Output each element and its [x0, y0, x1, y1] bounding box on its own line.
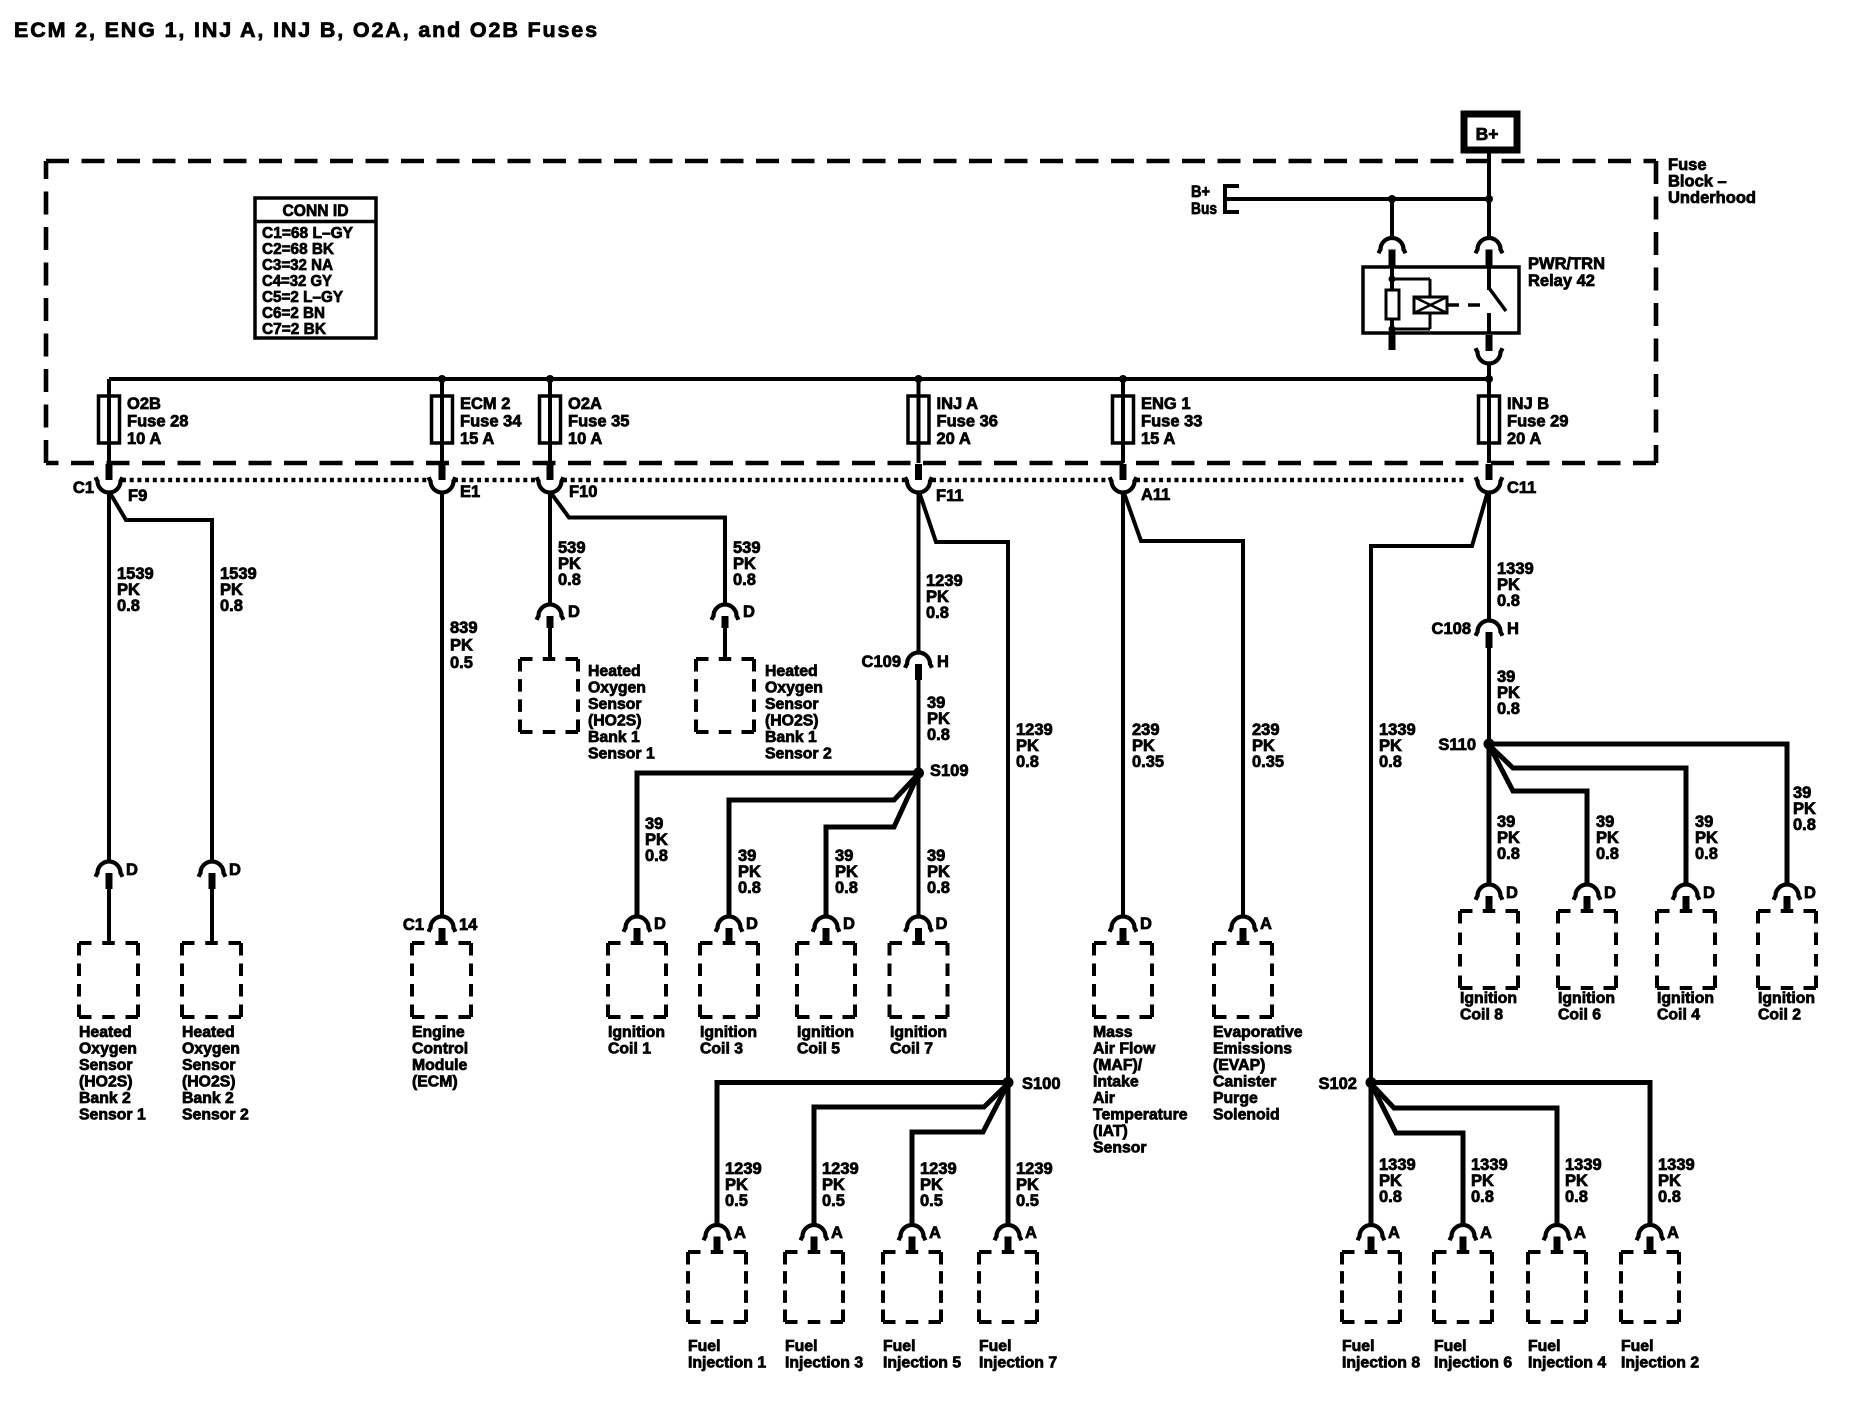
svg-text:Module: Module [412, 1057, 467, 1074]
svg-text:Heated: Heated [182, 1024, 235, 1041]
svg-text:Bank 1: Bank 1 [765, 729, 817, 746]
svg-text:Fuel: Fuel [1621, 1338, 1653, 1355]
svg-text:Air: Air [1093, 1090, 1115, 1107]
svg-text:Fuel: Fuel [688, 1338, 720, 1355]
svg-text:0.8: 0.8 [1379, 1188, 1402, 1206]
svg-text:A: A [1480, 1224, 1492, 1242]
svg-text:A: A [1574, 1224, 1586, 1242]
svg-text:O2B: O2B [127, 395, 161, 413]
svg-text:0.8: 0.8 [1497, 700, 1520, 718]
svg-text:C7=2 BK: C7=2 BK [262, 321, 326, 338]
svg-text:Temperature: Temperature [1093, 1107, 1188, 1124]
svg-text:10 A: 10 A [568, 430, 602, 448]
svg-text:A: A [734, 1224, 746, 1242]
svg-text:Sensor: Sensor [1093, 1140, 1147, 1157]
svg-text:0.8: 0.8 [1793, 816, 1816, 834]
svg-text:Sensor: Sensor [79, 1057, 133, 1074]
svg-text:ECM 2, ENG 1, INJ A, INJ B, O2: ECM 2, ENG 1, INJ A, INJ B, O2A, and O2B… [14, 18, 599, 42]
svg-text:0.35: 0.35 [1132, 753, 1164, 771]
svg-text:D: D [843, 915, 855, 933]
svg-text:C3=32 NA: C3=32 NA [262, 257, 333, 274]
svg-text:Oxygen: Oxygen [182, 1041, 240, 1058]
svg-text:S109: S109 [930, 762, 969, 780]
svg-text:0.8: 0.8 [1497, 845, 1520, 863]
svg-text:0.8: 0.8 [1497, 592, 1520, 610]
svg-text:Canister: Canister [1213, 1074, 1276, 1091]
svg-text:0.8: 0.8 [927, 879, 950, 897]
svg-text:Heated: Heated [79, 1024, 132, 1041]
svg-text:D: D [1604, 884, 1616, 902]
svg-text:0.5: 0.5 [822, 1192, 845, 1210]
svg-text:Sensor 1: Sensor 1 [79, 1107, 146, 1124]
svg-text:10 A: 10 A [127, 430, 161, 448]
svg-text:CONN ID: CONN ID [283, 202, 349, 220]
svg-text:A: A [929, 1224, 941, 1242]
svg-text:Fuel: Fuel [1342, 1338, 1374, 1355]
svg-text:0.8: 0.8 [117, 597, 140, 615]
svg-text:F9: F9 [128, 487, 147, 505]
svg-text:B+: B+ [1476, 124, 1499, 144]
svg-text:Heated: Heated [765, 663, 818, 680]
svg-text:Bank 1: Bank 1 [588, 729, 640, 746]
svg-text:H: H [937, 653, 949, 671]
svg-text:0.8: 0.8 [1695, 845, 1718, 863]
svg-text:Coil 3: Coil 3 [700, 1041, 743, 1058]
svg-text:A11: A11 [1141, 486, 1170, 504]
svg-text:C6=2 BN: C6=2 BN [262, 305, 325, 322]
svg-text:0.5: 0.5 [1016, 1192, 1039, 1210]
svg-text:0.5: 0.5 [450, 654, 473, 672]
svg-text:0.8: 0.8 [645, 847, 668, 865]
svg-text:(ECM): (ECM) [412, 1074, 458, 1091]
svg-text:Fuse 36: Fuse 36 [937, 413, 998, 431]
svg-text:Bank 2: Bank 2 [79, 1090, 131, 1107]
svg-text:0.8: 0.8 [1658, 1188, 1681, 1206]
svg-text:Emissions: Emissions [1213, 1041, 1292, 1058]
svg-text:Injection 7: Injection 7 [979, 1355, 1057, 1372]
svg-text:0.8: 0.8 [1596, 845, 1619, 863]
svg-text:(HO2S): (HO2S) [79, 1074, 133, 1091]
svg-text:Relay 42: Relay 42 [1528, 272, 1595, 290]
svg-text:Oxygen: Oxygen [588, 680, 646, 697]
svg-text:20 A: 20 A [937, 430, 971, 448]
svg-text:D: D [936, 915, 948, 933]
svg-text:Ignition: Ignition [608, 1024, 665, 1041]
svg-text:14: 14 [459, 916, 478, 934]
svg-text:C2=68 BK: C2=68 BK [262, 241, 334, 258]
svg-text:A: A [1260, 915, 1272, 933]
svg-text:D: D [126, 861, 138, 879]
svg-text:S102: S102 [1318, 1075, 1357, 1093]
svg-text:0.8: 0.8 [1471, 1188, 1494, 1206]
svg-text:D: D [1703, 884, 1715, 902]
svg-text:(EVAP): (EVAP) [1213, 1057, 1265, 1074]
svg-text:Fuel: Fuel [1434, 1338, 1466, 1355]
svg-text:(IAT): (IAT) [1093, 1123, 1128, 1140]
svg-text:Bank 2: Bank 2 [182, 1090, 234, 1107]
svg-text:0.8: 0.8 [1016, 753, 1039, 771]
svg-text:Fuel: Fuel [1528, 1338, 1560, 1355]
svg-text:Injection 2: Injection 2 [1621, 1355, 1699, 1372]
svg-text:D: D [743, 603, 755, 621]
svg-text:C11: C11 [1507, 479, 1536, 497]
svg-text:S110: S110 [1438, 736, 1476, 754]
svg-text:A: A [831, 1224, 843, 1242]
svg-text:0.8: 0.8 [558, 571, 581, 589]
svg-text:O2A: O2A [568, 395, 602, 413]
svg-text:A: A [1025, 1224, 1037, 1242]
svg-text:Coil 5: Coil 5 [797, 1041, 840, 1058]
svg-text:F11: F11 [936, 487, 964, 505]
svg-text:0.5: 0.5 [920, 1192, 943, 1210]
svg-text:0.8: 0.8 [1565, 1188, 1588, 1206]
svg-text:Ignition: Ignition [890, 1024, 947, 1041]
svg-text:(HO2S): (HO2S) [765, 713, 819, 730]
svg-text:Evaporative: Evaporative [1213, 1024, 1303, 1041]
svg-text:D: D [746, 915, 758, 933]
svg-text:Coil 1: Coil 1 [608, 1041, 651, 1058]
svg-text:A: A [1667, 1224, 1679, 1242]
svg-text:(HO2S): (HO2S) [588, 713, 642, 730]
svg-text:Oxygen: Oxygen [79, 1041, 137, 1058]
svg-text:INJ B: INJ B [1507, 395, 1549, 413]
svg-text:(MAF)/: (MAF)/ [1093, 1057, 1143, 1074]
svg-text:Mass: Mass [1093, 1024, 1133, 1041]
svg-text:Injection 4: Injection 4 [1528, 1355, 1606, 1372]
svg-text:Fuse 29: Fuse 29 [1507, 413, 1568, 431]
svg-text:Fuse 35: Fuse 35 [568, 413, 629, 431]
svg-text:C5=2 L–GY: C5=2 L–GY [262, 289, 343, 306]
svg-text:Bus: Bus [1191, 200, 1217, 218]
svg-text:ENG 1: ENG 1 [1141, 395, 1191, 413]
svg-text:C108: C108 [1432, 620, 1471, 638]
svg-text:Injection 3: Injection 3 [785, 1355, 863, 1372]
svg-text:Fuse 33: Fuse 33 [1141, 413, 1202, 431]
svg-text:Underhood: Underhood [1668, 189, 1756, 207]
svg-text:Injection 5: Injection 5 [883, 1355, 961, 1372]
svg-text:H: H [1507, 620, 1519, 638]
svg-text:Coil 6: Coil 6 [1558, 1007, 1601, 1024]
svg-text:0.8: 0.8 [220, 597, 243, 615]
svg-text:INJ A: INJ A [937, 395, 979, 413]
svg-text:Solenoid: Solenoid [1213, 1107, 1280, 1124]
svg-text:15 A: 15 A [460, 430, 494, 448]
svg-text:S100: S100 [1022, 1075, 1061, 1093]
svg-text:Injection 8: Injection 8 [1342, 1355, 1420, 1372]
svg-text:D: D [229, 861, 241, 879]
svg-text:Coil 7: Coil 7 [890, 1041, 933, 1058]
svg-text:0.8: 0.8 [835, 879, 858, 897]
svg-text:0.5: 0.5 [725, 1192, 748, 1210]
svg-text:Coil 4: Coil 4 [1657, 1007, 1700, 1024]
svg-text:D: D [1140, 915, 1152, 933]
svg-text:C109: C109 [862, 653, 901, 671]
svg-text:C1=68 L–GY: C1=68 L–GY [262, 225, 353, 242]
svg-text:Fuse 28: Fuse 28 [127, 413, 188, 431]
svg-text:Control: Control [412, 1041, 468, 1058]
svg-text:Sensor: Sensor [588, 696, 642, 713]
svg-text:Sensor 2: Sensor 2 [182, 1107, 249, 1124]
svg-text:Ignition: Ignition [1460, 990, 1517, 1007]
svg-text:Heated: Heated [588, 663, 641, 680]
svg-text:E1: E1 [460, 483, 480, 501]
svg-text:0.35: 0.35 [1252, 753, 1284, 771]
svg-text:Oxygen: Oxygen [765, 680, 823, 697]
svg-text:Fuel: Fuel [979, 1338, 1011, 1355]
svg-text:Fuse 34: Fuse 34 [460, 413, 522, 431]
svg-text:Sensor 1: Sensor 1 [588, 746, 655, 763]
svg-text:0.8: 0.8 [927, 726, 950, 744]
svg-text:Sensor: Sensor [765, 696, 819, 713]
svg-text:A: A [1388, 1224, 1400, 1242]
svg-text:20 A: 20 A [1507, 430, 1541, 448]
svg-text:0.8: 0.8 [1379, 753, 1402, 771]
svg-text:Air Flow: Air Flow [1093, 1041, 1156, 1058]
svg-text:0.8: 0.8 [738, 879, 761, 897]
svg-text:Block –: Block – [1668, 173, 1727, 191]
svg-text:Ignition: Ignition [1657, 990, 1714, 1007]
svg-text:D: D [1506, 884, 1518, 902]
svg-text:Fuel: Fuel [883, 1338, 915, 1355]
svg-text:(HO2S): (HO2S) [182, 1074, 236, 1091]
svg-text:Coil 2: Coil 2 [1758, 1007, 1801, 1024]
svg-text:0.8: 0.8 [926, 604, 949, 622]
svg-text:Ignition: Ignition [1558, 990, 1615, 1007]
svg-text:Injection 6: Injection 6 [1434, 1355, 1512, 1372]
svg-text:839: 839 [450, 619, 478, 637]
svg-text:PWR/TRN: PWR/TRN [1528, 255, 1605, 273]
svg-text:B+: B+ [1191, 183, 1210, 201]
svg-text:Injection 1: Injection 1 [688, 1355, 766, 1372]
svg-text:Fuel: Fuel [785, 1338, 817, 1355]
svg-text:Sensor: Sensor [182, 1057, 236, 1074]
svg-text:Fuse: Fuse [1668, 156, 1707, 174]
svg-text:15 A: 15 A [1141, 430, 1175, 448]
svg-text:Ignition: Ignition [797, 1024, 854, 1041]
svg-text:C4=32 GY: C4=32 GY [262, 273, 332, 290]
svg-text:PK: PK [450, 637, 473, 655]
svg-text:Intake: Intake [1093, 1074, 1139, 1091]
svg-text:C1: C1 [403, 916, 424, 934]
svg-text:Ignition: Ignition [700, 1024, 757, 1041]
svg-text:D: D [568, 603, 580, 621]
svg-text:Engine: Engine [412, 1024, 465, 1041]
svg-text:Coil 8: Coil 8 [1460, 1007, 1503, 1024]
svg-text:Purge: Purge [1213, 1090, 1258, 1107]
svg-text:F10: F10 [569, 483, 597, 501]
svg-text:Sensor 2: Sensor 2 [765, 746, 832, 763]
svg-text:D: D [1804, 884, 1816, 902]
svg-text:Ignition: Ignition [1758, 990, 1815, 1007]
svg-text:C1: C1 [73, 479, 94, 497]
svg-text:0.8: 0.8 [733, 571, 756, 589]
svg-text:D: D [654, 915, 666, 933]
svg-text:ECM 2: ECM 2 [460, 395, 510, 413]
